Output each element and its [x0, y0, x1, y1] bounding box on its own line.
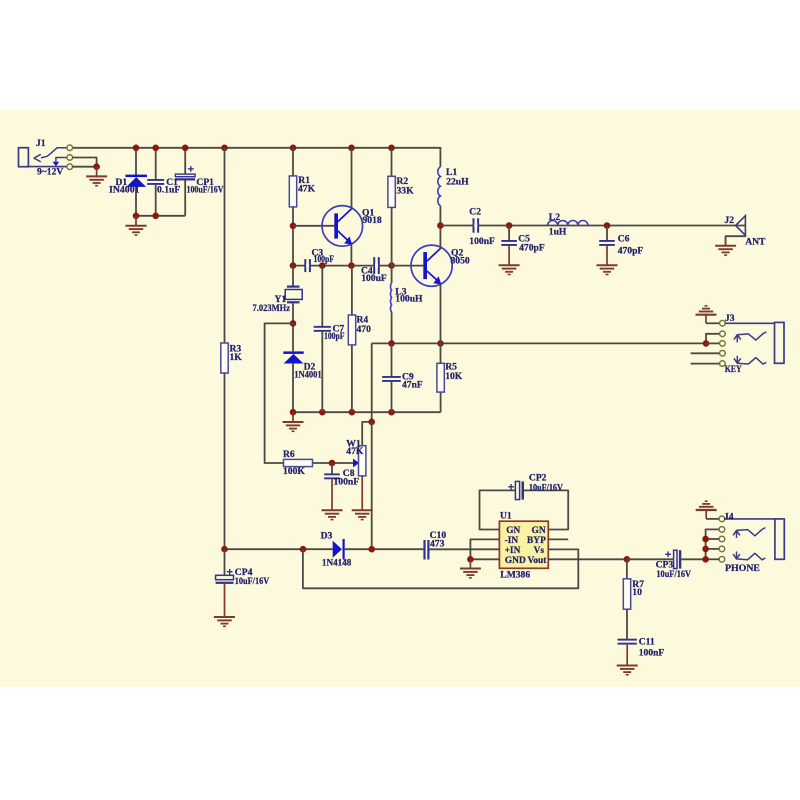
ground input filter: [126, 225, 147, 227]
node D3 anode: [300, 546, 307, 553]
svg-text:R6: R6: [283, 449, 295, 460]
svg-text:IN4001: IN4001: [109, 184, 140, 195]
svg-text:J2: J2: [724, 215, 734, 226]
wire D1 to bottom rail: [135, 187, 137, 216]
ground C8: [322, 509, 343, 511]
svg-text:470pF: 470pF: [618, 245, 644, 256]
capacitor C9 plates: [382, 376, 401, 378]
svg-text:10uF/16V: 10uF/16V: [235, 576, 269, 587]
connector J3 pin5: [720, 361, 726, 367]
wire Q2 emitter to key rail: [440, 284, 442, 344]
svg-text:Vs: Vs: [534, 546, 545, 556]
wire R4 bottom: [351, 345, 353, 412]
ground oscillator rail: [283, 421, 304, 423]
wire Q2 collector to L1 node: [439, 226, 441, 249]
wire C1 to bottom rail: [155, 185, 157, 216]
svg-text:470pF: 470pF: [519, 242, 545, 253]
connector J4 pin1: [719, 516, 725, 522]
wire C9 bottom: [391, 382, 393, 412]
connector J4 pin4: [719, 546, 725, 552]
ground stem CP4: [224, 584, 226, 617]
svg-text:33K: 33K: [397, 185, 415, 196]
ground stem J4: [705, 510, 707, 519]
wire U1 Vs feedback: [303, 549, 578, 588]
connector J3 pin4: [720, 351, 726, 357]
node R6/C8/wiper: [329, 460, 336, 467]
resistor R2: [388, 176, 395, 207]
diode D3 cathode bar: [343, 539, 345, 560]
node J3 key input: [703, 340, 710, 347]
node L1/Q2 collector/C2: [437, 222, 444, 229]
node J4 pin3: [702, 536, 709, 543]
svg-text:-IN: -IN: [505, 536, 519, 546]
svg-text:100uF/16V: 100uF/16V: [187, 184, 224, 195]
node key rail/C9: [388, 340, 395, 347]
Q2 emitter arrowhead: [433, 276, 441, 284]
svg-text:D3: D3: [321, 531, 333, 542]
inductor L2: [548, 220, 588, 225]
svg-text:22uH: 22uH: [446, 176, 469, 187]
node C5 top: [506, 222, 513, 229]
svg-text:10uF/16V: 10uF/16V: [656, 569, 691, 580]
wire C8 top: [331, 463, 333, 474]
node Y1/D2: [290, 320, 297, 327]
wire U1 -IN tie: [470, 539, 499, 559]
ground stem C11: [626, 645, 628, 666]
wire C7 bottom: [321, 332, 323, 412]
svg-text:C6: C6: [618, 234, 630, 245]
node rail/C1: [152, 145, 159, 152]
svg-text:100uF: 100uF: [361, 273, 387, 284]
svg-text:C11: C11: [639, 637, 655, 648]
wire J4 pin1 to body: [725, 518, 775, 520]
svg-text:9018: 9018: [363, 215, 382, 226]
wire C10 to U1 +IN: [430, 548, 500, 550]
wire CP1 to bottom rail: [184, 181, 186, 216]
node C3 left: [290, 262, 297, 269]
wire R3 to keyed node: [224, 373, 226, 549]
svg-text:C2: C2: [469, 206, 481, 217]
resistor R7: [623, 579, 630, 609]
node J4 pin5: [702, 556, 709, 563]
J4 ring arrow: [733, 554, 740, 559]
capacitor CP1 negative plate: [175, 178, 195, 180]
svg-text:J3: J3: [725, 313, 735, 324]
wire C6 top: [606, 226, 608, 241]
node rail/R3: [221, 145, 228, 152]
Q2 collector stroke: [427, 248, 441, 261]
svg-text:47K: 47K: [346, 446, 364, 457]
CP3 plus sign: [665, 553, 671, 555]
svg-text:9~12V: 9~12V: [37, 167, 63, 178]
wire L3 top: [391, 266, 393, 283]
wire W1/D3 vertical: [371, 422, 373, 549]
svg-text:7.023MHz: 7.023MHz: [253, 303, 291, 314]
Q2 emitter stroke: [427, 271, 438, 281]
wire R6 right to wiper node: [313, 462, 354, 464]
IC U1 LM386 body: [499, 521, 548, 568]
wire J1 sleeve line: [28, 166, 67, 168]
ground C5: [499, 264, 520, 266]
J3 ring arrow: [734, 358, 741, 363]
svg-text:GN: GN: [532, 526, 546, 536]
ground above J4: [696, 509, 717, 511]
connector J4 pin3: [719, 536, 725, 542]
svg-text:100pF: 100pF: [324, 331, 345, 341]
svg-text:ANT: ANT: [745, 236, 766, 247]
Q1 emitter stroke: [338, 231, 349, 242]
svg-text:Vout: Vout: [527, 556, 547, 566]
wire R7 top: [626, 559, 628, 579]
node gnd rail/D2: [290, 409, 297, 416]
J1 tip lever: [41, 148, 67, 158]
wire W1 top feed: [362, 422, 372, 446]
svg-text:470: 470: [357, 324, 372, 335]
J1 tip arrow: [34, 154, 41, 162]
svg-text:J4: J4: [724, 512, 734, 523]
wire R2 from rail: [391, 148, 393, 177]
diode D1 (IN4001) cathode bar: [126, 175, 148, 178]
svg-text:0.1uF: 0.1uF: [157, 184, 180, 195]
diode D1 triangle: [126, 177, 146, 187]
node Vout/R7/CP3: [624, 556, 631, 563]
wire U1 Vout: [548, 558, 627, 560]
wire U1 GN-left to CP2: [480, 490, 516, 529]
J3 ring spring contact: [737, 358, 766, 365]
wire J3 pin3 feed: [706, 342, 720, 344]
svg-text:47K: 47K: [298, 184, 316, 195]
node rail/D1: [133, 145, 140, 152]
ground stem J3: [705, 315, 707, 324]
svg-text:1uH: 1uH: [549, 226, 567, 237]
node Q1 base: [290, 223, 297, 230]
ground stem J1: [96, 167, 98, 177]
ground stem C5: [508, 246, 510, 265]
potentiometer W1 body: [359, 446, 366, 476]
wire J3 pin4 stub: [691, 352, 720, 354]
resistor R1: [289, 176, 296, 207]
capacitor C8 plates: [324, 473, 340, 475]
wire to R6 branch (left): [265, 323, 293, 463]
Q1 emitter arrowhead: [344, 236, 352, 244]
wire R3 from rail: [224, 148, 226, 343]
wire J4 pin3 feed: [706, 538, 720, 540]
svg-text:J1: J1: [36, 138, 46, 149]
crystal Y1 bottom plate: [287, 301, 300, 303]
connector J1 body: [19, 148, 29, 167]
J1 pin 3 (sleeve): [67, 164, 73, 170]
transistor Q1 circle: [322, 206, 363, 247]
wire J4 pin5 feed: [706, 558, 720, 560]
wire L3 bottom: [391, 312, 393, 343]
keyed audio line (left): [225, 548, 333, 550]
svg-text:1N4148: 1N4148: [322, 558, 352, 569]
ground J2: [715, 245, 736, 247]
svg-text:473: 473: [430, 539, 445, 550]
node U1 GND: [467, 556, 474, 563]
capacitor C7 plates: [314, 326, 331, 328]
inductor L1: [438, 167, 441, 206]
ground W1: [352, 509, 373, 511]
svg-text:U1: U1: [500, 510, 512, 521]
svg-text:100uH: 100uH: [395, 294, 423, 305]
node rail/R2: [388, 145, 395, 152]
transistor Q2 circle: [411, 245, 452, 286]
svg-text:100K: 100K: [283, 466, 305, 477]
J4 ring spring contact: [737, 553, 766, 560]
node C4 right: [388, 262, 395, 269]
ground stem W1: [361, 476, 363, 510]
node C1 bottom: [152, 213, 159, 220]
capacitor CP4 positive plate (hollow): [216, 575, 234, 579]
wire key rail down to W1 node: [371, 343, 373, 422]
svg-text:BYP: BYP: [527, 536, 546, 546]
wire CP3 right to J4: [681, 558, 705, 560]
capacitor C6 plates: [599, 240, 615, 242]
connector J3 pin3: [720, 341, 726, 347]
capacitor CP2 negative plate: [522, 481, 525, 499]
svg-text:100nF: 100nF: [469, 236, 495, 247]
ground stem C6: [606, 246, 608, 265]
wire U1 GND: [470, 558, 499, 560]
J1 pin 1 (tip): [67, 145, 73, 151]
wire J1 ring to sleeve: [72, 158, 96, 167]
node key rail/Q2 emitter R5: [437, 340, 444, 347]
J1 pin 2 (ring): [67, 155, 73, 161]
inductor L3: [390, 283, 391, 312]
wire D2 to ground rail: [292, 364, 294, 413]
oscillator ground rail: [293, 411, 441, 413]
node C6 top: [604, 222, 611, 229]
capacitor CP3 negative plate: [679, 550, 681, 568]
wire R2 to Q2 base node: [391, 207, 393, 265]
node Q1 emitter row: [348, 262, 355, 269]
node C3 right: [319, 262, 326, 269]
connector J4 pin5: [719, 557, 725, 563]
keyed emitter rail: [372, 342, 706, 344]
J3 tip spring contact: [737, 332, 766, 340]
J1 center-tap arrow (blue): [56, 158, 67, 162]
node gnd rail/C9: [388, 409, 395, 416]
Q1 base bar: [334, 213, 338, 238]
wire U1 BYP stub: [548, 538, 568, 540]
node D3 cathode/W1: [368, 546, 375, 553]
svg-text:GND: GND: [505, 556, 526, 566]
capacitor C11 plates: [618, 639, 637, 641]
svg-text:PHONE: PHONE: [725, 563, 760, 574]
ground C6: [597, 264, 618, 266]
connector J4 pin2: [719, 527, 725, 533]
svg-text:1K: 1K: [230, 352, 243, 363]
resistor R4: [348, 315, 355, 345]
diode D3 triangle: [333, 541, 342, 558]
connector J2 antenna triangle: [736, 216, 746, 236]
wire J3 pin2 feed: [706, 334, 720, 344]
wire R4 top: [351, 266, 353, 315]
svg-text:100nF: 100nF: [639, 647, 665, 658]
connector J3 pin2: [720, 331, 726, 337]
CP2 plus sign: [508, 486, 514, 488]
node rail/CP1: [182, 145, 189, 152]
svg-text:10uF/16V: 10uF/16V: [529, 482, 563, 493]
connector J3 body: [775, 322, 785, 363]
node gnd rail/C7: [319, 409, 326, 416]
wire C7 top: [321, 266, 323, 326]
wire CP4 top: [224, 549, 226, 575]
svg-text:+IN: +IN: [505, 546, 521, 556]
node gnd rail/R4: [349, 409, 356, 416]
ground stem J2: [725, 236, 727, 245]
diode D2 triangle: [284, 354, 304, 364]
svg-text:1N4001: 1N4001: [294, 369, 322, 380]
bottom rail of input filter: [136, 215, 185, 217]
wire R5 top: [440, 343, 442, 363]
capacitor C5 plates: [501, 240, 517, 242]
crystal Y1 top plate: [287, 286, 300, 288]
wire Q1 collector to rail: [351, 148, 353, 209]
capacitor C10 plates: [423, 540, 425, 560]
svg-text:KEY: KEY: [725, 364, 742, 375]
svg-text:47nF: 47nF: [402, 380, 423, 391]
wire L1 top feed: [439, 147, 441, 167]
diode D2 (1N4001) cathode bar: [283, 351, 303, 354]
ground C11: [617, 665, 638, 667]
ground U1: [460, 568, 481, 570]
capacitor CP3 positive plate (hollow): [674, 550, 677, 568]
J4 tip spring contact: [737, 528, 766, 536]
wire J4 pin2 feed: [706, 529, 720, 559]
capacitor C3 plates: [304, 259, 306, 272]
svg-text:GN: GN: [506, 526, 520, 536]
wire CP1 branch from rail: [184, 148, 186, 175]
ground stem oscillator: [292, 412, 294, 422]
svg-text:100pF: 100pF: [314, 254, 335, 264]
wire J1 sleeve to ground: [72, 166, 96, 168]
capacitor C1 plates: [147, 179, 164, 181]
wire Q1 base: [293, 225, 334, 227]
wire CP3 left: [627, 558, 674, 560]
wire D3 cathode to C10: [345, 548, 424, 550]
J4 tip arrow: [733, 530, 740, 535]
ground CP4: [214, 616, 235, 618]
resistor R5: [437, 363, 444, 392]
connector J3 pin1: [720, 321, 726, 327]
svg-text:10K: 10K: [445, 371, 463, 382]
wire Y1 top: [292, 266, 294, 286]
wire D2 top: [292, 323, 294, 351]
ground J1: [86, 175, 107, 177]
ground above J3: [696, 314, 717, 316]
Q2 base wire: [392, 265, 424, 267]
svg-text:L2: L2: [549, 212, 560, 223]
resistor R3: [221, 343, 228, 373]
wire D1 branch from rail: [135, 148, 137, 175]
wire CP2 to U1 GN-right: [524, 490, 568, 529]
wire Y1 bottom: [292, 303, 294, 323]
node J1 sleeve junction: [93, 163, 100, 170]
wire J3 pin5 stub: [691, 363, 720, 365]
wire R5 bottom to rail: [440, 392, 442, 412]
capacitor CP2 positive plate (hollow): [515, 481, 519, 499]
W1 wiper arrowhead: [353, 459, 359, 468]
wire C1 branch from rail: [155, 148, 157, 180]
ground stem U1: [469, 559, 471, 568]
oscillator node row wire (C3/C4): [293, 265, 373, 267]
wire J4 pin4 feed: [706, 548, 720, 550]
node R3/CP4: [221, 546, 228, 553]
capacitor C2 plates: [473, 218, 475, 232]
Q2 base bar: [423, 252, 427, 279]
node rail/Q1 collector: [348, 145, 355, 152]
wire J3 pin1 feed: [706, 322, 720, 324]
wire R1 from rail: [292, 148, 294, 176]
capacitor CP4 negative plate: [216, 582, 234, 584]
wire R7 to C11: [626, 609, 628, 639]
wire C5 top: [508, 226, 510, 241]
wire J2 to ground: [726, 235, 746, 246]
wire J4 pin1 feed: [706, 518, 719, 520]
crystal Y1 body: [285, 290, 302, 300]
svg-text:100nF: 100nF: [334, 476, 360, 487]
svg-text:LM386: LM386: [500, 569, 530, 580]
svg-text:10: 10: [632, 587, 642, 598]
CP4 plus sign: [227, 571, 233, 573]
power rail V+ (top): [70, 147, 441, 149]
ground stem C8: [331, 479, 333, 510]
node D1 bottom: [133, 213, 140, 220]
wire R1 to Q1 base node: [292, 207, 294, 266]
CP1 plus sign: [188, 168, 194, 170]
node J4 pin4: [702, 546, 709, 553]
wire C9 top: [391, 343, 393, 376]
capacitor C4 plates: [373, 257, 375, 274]
svg-text:8050: 8050: [451, 255, 470, 266]
node rail/R1: [290, 145, 297, 152]
ground stem below D1: [135, 216, 137, 226]
wire L1 bottom: [439, 206, 441, 226]
wire Q1 emitter down: [350, 244, 352, 266]
wire J3 pin1 to body: [725, 322, 774, 324]
J3 tip arrow: [734, 335, 741, 340]
node W1 top: [368, 419, 375, 426]
Q1 collector stroke: [338, 208, 352, 221]
capacitor CP1 positive plate (hollow): [175, 174, 195, 177]
connector J4 body: [775, 519, 784, 559]
RF output line: [440, 225, 745, 227]
resistor R6: [284, 459, 313, 466]
